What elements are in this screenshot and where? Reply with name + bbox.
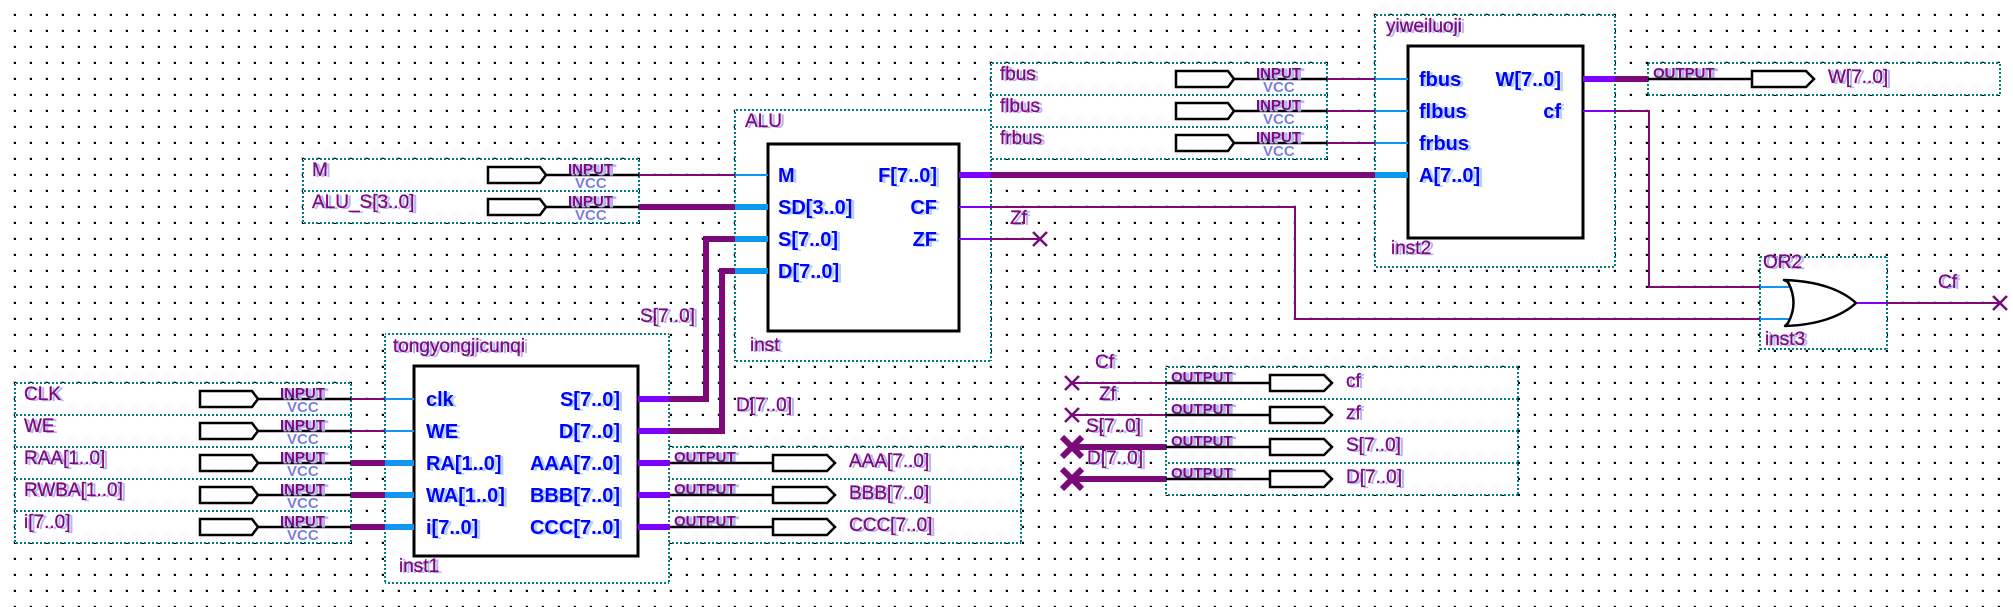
input port RA[1..0] of tongyongjicunqi inst1: [381, 453, 505, 476]
input port clk of tongyongjicunqi inst1: [381, 389, 458, 412]
pin name label W[7..0]: [1828, 67, 1891, 89]
input port flbus of yiweiluoji inst2: [1375, 101, 1470, 124]
OUTPUT type label of pin BBB[7..0]: [674, 481, 739, 499]
pin name label CLK: [24, 384, 64, 406]
svg-text:BBB[7..0]: BBB[7..0]: [530, 485, 620, 507]
pin symbol flag of CCC[7..0]: [669, 519, 835, 535]
wire net Cf: OR2 output dangling: [1887, 302, 2000, 304]
VCC default value label of RWBA: [287, 495, 319, 512]
VCC default value label of flbus: [1263, 111, 1295, 128]
INPUT type label of WE: [280, 417, 328, 435]
wire net ZF: ALU ZF dangling: [991, 238, 1040, 240]
OUTPUT type label of pin zf: [1171, 401, 1236, 419]
pin symbol flag of cf: [1166, 375, 1332, 391]
wire bus S[7..0] stub to output pin: [1072, 444, 1166, 450]
VCC default value label of fbus: [1263, 79, 1295, 96]
wire bus RAA[1..0]: [351, 460, 385, 466]
wire bus i[7..0]: [351, 524, 385, 530]
pin name label frbus: [1000, 128, 1045, 150]
output pin S[7..0]: [1166, 431, 1518, 463]
pin symbol flag of flbus: [1176, 103, 1327, 119]
output pin W[7..0]: [1648, 63, 2000, 95]
output port F[7..0] of ALU inst: [878, 165, 991, 188]
input pin CLK: [15, 383, 351, 415]
wire net zf stub to output pin: [1072, 414, 1166, 416]
input port M of ALU inst: [735, 165, 798, 188]
input pin RAA[1..0]: [15, 447, 351, 479]
svg-text:clk: clk: [426, 389, 455, 411]
tongyongjicunqi inst1 body rectangle: [414, 366, 638, 556]
svg-text:VCC: VCC: [287, 527, 319, 544]
input port S[7..0] of ALU inst: [735, 229, 841, 252]
gate OR2 symbol boundary: [1760, 252, 1887, 351]
input pin ALU_S[3..0]: [303, 191, 639, 223]
input pin WE: [15, 415, 351, 447]
svg-text:ALU: ALU: [745, 111, 782, 132]
svg-text:WE: WE: [24, 416, 55, 437]
output pin D[7..0]: [1166, 463, 1518, 495]
wire net WE: [351, 430, 385, 432]
svg-text:Zf: Zf: [1010, 208, 1028, 229]
svg-text:W[7..0]: W[7..0]: [1495, 69, 1561, 91]
pin name label RWBA: [24, 480, 126, 502]
input port SD[3..0] of ALU inst: [735, 197, 855, 220]
svg-text:Zf: Zf: [1099, 384, 1117, 405]
INPUT type label of frbus: [1256, 129, 1304, 147]
INPUT type label of M: [568, 161, 616, 179]
pin name label BBB[7..0]: [849, 483, 932, 505]
block ALU symbol boundary: [735, 110, 991, 361]
svg-text:inst2: inst2: [1391, 238, 1431, 259]
svg-text:AAA[7..0]: AAA[7..0]: [849, 451, 929, 472]
svg-text:frbus: frbus: [1419, 133, 1469, 155]
svg-text:AAA[7..0]: AAA[7..0]: [530, 453, 620, 475]
pin name label D[7..0]: [1346, 467, 1405, 489]
svg-text:RA[1..0]: RA[1..0]: [426, 453, 502, 475]
pin name label S[7..0]: [1346, 435, 1404, 457]
INPUT type label of ALU_S: [568, 193, 616, 211]
dangling X on Cf net: [1993, 296, 2007, 310]
wire bus D[7..0] stub to output pin: [1072, 476, 1166, 482]
svg-text:BBB[7..0]: BBB[7..0]: [849, 483, 929, 504]
input port WA[1..0] of tongyongjicunqi inst1: [381, 485, 508, 508]
INPUT type label of RWBA: [280, 481, 328, 499]
INPUT type label of RAA: [280, 449, 328, 467]
VCC default value label of ALU_S: [575, 207, 607, 224]
svg-text:fbus: fbus: [1000, 64, 1036, 85]
pin symbol flag of fbus: [1176, 71, 1327, 87]
svg-text:CF: CF: [910, 197, 937, 219]
pin symbol flag of RAA: [200, 455, 351, 471]
pin symbol flag of frbus: [1176, 135, 1327, 151]
pin symbol flag of ALU_S: [488, 199, 639, 215]
pin symbol flag of M: [488, 167, 639, 183]
svg-text:i[7..0]: i[7..0]: [24, 512, 70, 533]
svg-text:OR2: OR2: [1763, 252, 1802, 273]
pin name label zf: [1346, 403, 1365, 425]
INPUT type label of CLK: [280, 385, 328, 403]
pin name label fbus: [1000, 64, 1039, 86]
wire net clk: [351, 398, 385, 400]
output pin AAA[7..0]: [669, 447, 1021, 479]
input port frbus of yiweiluoji inst2: [1375, 133, 1472, 156]
svg-text:VCC: VCC: [287, 495, 319, 512]
pin name label ALU_S: [312, 192, 417, 214]
wire net CF: ALU CF to OR2 input: [991, 207, 1760, 319]
wire bus ALU_S[3..0]: input pin to ALU SD: [639, 204, 735, 210]
wire bus W[7..0]: yiweiluoji W to output pin: [1615, 76, 1648, 82]
dangling X on zf output net: [1065, 408, 1079, 422]
svg-text:S[7..0]: S[7..0]: [560, 389, 620, 411]
svg-text:VCC: VCC: [287, 463, 319, 480]
pin symbol flag of AAA[7..0]: [669, 455, 835, 471]
svg-text:inst: inst: [750, 335, 780, 356]
VCC default value label of frbus: [1263, 143, 1295, 160]
input port A[7..0] of yiweiluoji inst2: [1375, 165, 1483, 188]
wire net cf stub to output pin: [1072, 382, 1166, 384]
INPUT type label of flbus: [1256, 97, 1304, 115]
svg-text:S[7..0]: S[7..0]: [1346, 435, 1401, 456]
or-gate U:inst3 OR2 body: [1760, 280, 1887, 326]
block tongyongjicunqi symbol boundary: [385, 334, 669, 583]
svg-text:Cf: Cf: [1095, 352, 1115, 373]
VCC default value label of RAA: [287, 463, 319, 480]
VCC default value label of M: [575, 175, 607, 192]
pin symbol flag of CLK: [200, 391, 351, 407]
svg-text:VCC: VCC: [1263, 79, 1295, 96]
svg-text:tongyongjicunqi: tongyongjicunqi: [393, 336, 525, 357]
svg-text:D[7..0]: D[7..0]: [559, 421, 620, 443]
svg-text:CCC[7..0]: CCC[7..0]: [530, 517, 620, 539]
svg-text:VCC: VCC: [287, 431, 319, 448]
svg-text:VCC: VCC: [287, 399, 319, 416]
wire bus F[7..0]: ALU F to yiweiluoji A: [991, 172, 1375, 178]
output port AAA[7..0] of tongyongjicunqi inst1: [530, 453, 670, 476]
output pin CCC[7..0]: [669, 511, 1021, 543]
pin symbol flag of D[7..0]: [1166, 471, 1332, 487]
dangling X on D[7..0] output bus: [1062, 469, 1082, 489]
output port W[7..0] of yiweiluoji inst2: [1495, 69, 1615, 92]
dangling X on ZF net: [1033, 232, 1047, 246]
OUTPUT type label of pin AAA[7..0]: [674, 449, 739, 467]
input port i[7..0] of tongyongjicunqi inst1: [381, 517, 481, 540]
svg-text:VCC: VCC: [1263, 143, 1295, 160]
wire net M: input pin to ALU: [639, 174, 735, 176]
VCC default value label of i: [287, 527, 319, 544]
wire net flbus: [1327, 110, 1375, 112]
input pin RWBA[1..0]: [15, 479, 351, 511]
svg-text:S[7..0]: S[7..0]: [1086, 416, 1141, 437]
output port BBB[7..0] of tongyongjicunqi inst1: [530, 485, 670, 508]
output port CCC[7..0] of tongyongjicunqi inst1: [530, 517, 670, 540]
pin name label AAA[7..0]: [849, 451, 932, 473]
svg-text:flbus: flbus: [1419, 101, 1467, 123]
svg-text:ALU_S[3..0]: ALU_S[3..0]: [312, 192, 414, 213]
INPUT type label of fbus: [1256, 65, 1304, 83]
svg-text:D[7..0]: D[7..0]: [778, 261, 839, 283]
wire bus S[7..0]: tongyongjicunqi S to ALU S: [669, 239, 735, 399]
svg-text:yiweiluoji: yiweiluoji: [1386, 16, 1462, 37]
wire net cf: yiweiluoji cf to OR2 input: [1615, 111, 1760, 287]
pin symbol flag of i: [200, 519, 351, 535]
output port ZF of ALU inst: [913, 229, 991, 252]
output port S[7..0] of tongyongjicunqi inst1: [560, 389, 670, 412]
INPUT type label of i: [280, 513, 328, 531]
pin name label WE: [24, 416, 58, 438]
pin symbol flag of W[7..0]: [1648, 71, 1814, 87]
input pin i[7..0]: [15, 511, 351, 543]
svg-text:M: M: [778, 165, 795, 187]
svg-text:cf: cf: [1346, 371, 1362, 392]
input pin fbus: [991, 63, 1327, 95]
svg-text:VCC: VCC: [1263, 111, 1295, 128]
svg-text:D[7..0]: D[7..0]: [1087, 448, 1143, 469]
dangling X on cf output net: [1065, 376, 1079, 390]
svg-text:VCC: VCC: [575, 207, 607, 224]
OUTPUT type label of pin D[7..0]: [1171, 465, 1236, 483]
svg-text:i[7..0]: i[7..0]: [426, 517, 478, 539]
svg-text:WE: WE: [426, 421, 458, 443]
svg-text:inst3: inst3: [1765, 329, 1805, 350]
svg-text:M: M: [312, 160, 328, 181]
output port CF of ALU inst: [910, 197, 991, 220]
VCC default value label of WE: [287, 431, 319, 448]
pin name label i: [24, 512, 73, 534]
pin name label RAA: [24, 448, 108, 470]
pin symbol flag of S[7..0]: [1166, 439, 1332, 455]
block yiweiluoji symbol boundary: [1375, 15, 1615, 267]
input port WE of tongyongjicunqi inst1: [381, 421, 461, 444]
svg-text:D[7..0]: D[7..0]: [736, 395, 792, 416]
svg-text:S[7..0]: S[7..0]: [640, 306, 695, 327]
input pin flbus: [991, 95, 1327, 127]
pin name label M: [312, 160, 331, 182]
svg-text:D[7..0]: D[7..0]: [1346, 467, 1402, 488]
input pin frbus: [991, 127, 1327, 159]
svg-text:zf: zf: [1346, 403, 1362, 424]
svg-text:Cf: Cf: [1938, 272, 1958, 293]
wire net frbus: [1327, 142, 1375, 144]
OUTPUT type label of pin cf: [1171, 369, 1236, 387]
pin symbol flag of zf: [1166, 407, 1332, 423]
dangling X on S[7..0] output bus: [1062, 437, 1082, 457]
OUTPUT type label of pin S[7..0]: [1171, 433, 1236, 451]
wire bus D[7..0]: tongyongjicunqi D to ALU D: [669, 271, 735, 431]
svg-text:S[7..0]: S[7..0]: [778, 229, 838, 251]
yiweiluoji inst2 body rectangle: [1408, 46, 1583, 238]
svg-text:W[7..0]: W[7..0]: [1828, 67, 1888, 88]
svg-text:CLK: CLK: [24, 384, 61, 405]
output pin zf: [1166, 399, 1518, 431]
svg-text:A[7..0]: A[7..0]: [1419, 165, 1480, 187]
svg-text:RWBA[1..0]: RWBA[1..0]: [24, 480, 123, 501]
OUTPUT type label of pin W[7..0]: [1653, 65, 1718, 83]
pin name label CCC[7..0]: [849, 515, 935, 537]
svg-text:ZF: ZF: [913, 229, 937, 251]
pin name label flbus: [1000, 96, 1043, 118]
svg-text:flbus: flbus: [1000, 96, 1040, 117]
OUTPUT type label of pin CCC[7..0]: [674, 513, 739, 531]
pin symbol flag of WE: [200, 423, 351, 439]
svg-text:RAA[1..0]: RAA[1..0]: [24, 448, 105, 469]
svg-text:cf: cf: [1543, 101, 1561, 123]
output pin BBB[7..0]: [669, 479, 1021, 511]
output pin cf: [1166, 367, 1518, 399]
input pin M: [303, 159, 639, 191]
svg-text:fbus: fbus: [1419, 69, 1461, 91]
pin symbol flag of BBB[7..0]: [669, 487, 835, 503]
input port fbus of yiweiluoji inst2: [1375, 69, 1464, 92]
wire bus RWBA[1..0]: [351, 492, 385, 498]
output port cf of yiweiluoji inst2: [1543, 101, 1615, 124]
svg-text:CCC[7..0]: CCC[7..0]: [849, 515, 932, 536]
svg-text:frbus: frbus: [1000, 128, 1042, 149]
svg-text:VCC: VCC: [575, 175, 607, 192]
VCC default value label of CLK: [287, 399, 319, 416]
input port D[7..0] of ALU inst: [735, 261, 842, 284]
svg-text:F[7..0]: F[7..0]: [878, 165, 937, 187]
wire net fbus: [1327, 78, 1375, 80]
svg-text:WA[1..0]: WA[1..0]: [426, 485, 505, 507]
svg-text:inst1: inst1: [399, 556, 439, 577]
output port D[7..0] of tongyongjicunqi inst1: [559, 421, 670, 444]
ALU inst body rectangle: [768, 144, 959, 331]
pin name label cf: [1346, 371, 1365, 393]
svg-text:SD[3..0]: SD[3..0]: [778, 197, 852, 219]
pin symbol flag of RWBA: [200, 487, 351, 503]
